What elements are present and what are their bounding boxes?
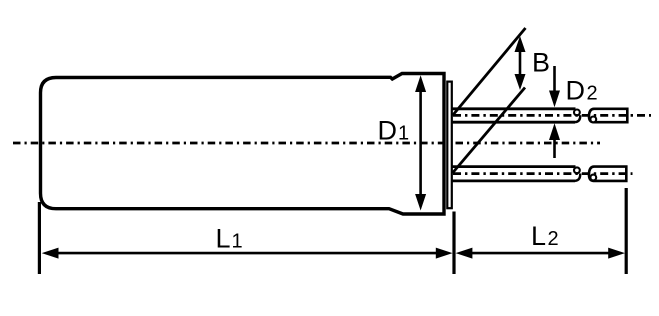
svg-text:B: B: [532, 47, 550, 77]
